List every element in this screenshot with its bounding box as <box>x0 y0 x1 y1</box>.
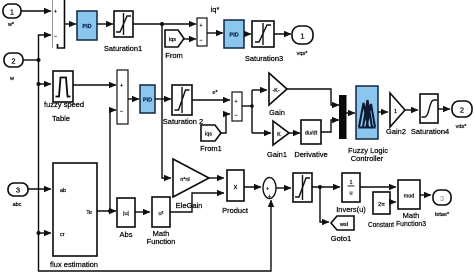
wire Saturation5 to Invers <box>312 186 340 188</box>
svg-text:+: + <box>234 99 237 105</box>
svg-text:Gain: Gain <box>269 108 285 117</box>
wire trunk w down and feedback along bottom to sum circle <box>39 60 272 271</box>
svg-text:3: 3 <box>440 194 444 203</box>
wire Gain to Mux <box>287 89 339 105</box>
wire mod to outport 3 <box>420 194 431 196</box>
saturation Saturation5 <box>293 173 312 202</box>
wire Sum1 to PID1 <box>65 23 76 25</box>
sum Sum4 <box>232 92 242 121</box>
svg-text:Constant: Constant <box>368 220 395 229</box>
wire Product to sum circle <box>244 186 261 188</box>
wire Te branch up to Sum3 minus <box>110 110 116 211</box>
svg-text:2: 2 <box>11 57 15 66</box>
wire Saturation 2 to Sum4 <box>192 99 230 101</box>
svg-text:Goto1: Goto1 <box>331 234 351 243</box>
wire Abs to Math Function <box>135 211 150 213</box>
svg-text:1: 1 <box>10 8 14 17</box>
svg-text:+: + <box>266 187 269 193</box>
wire From to Sum2 <box>184 38 196 40</box>
svg-text:x: x <box>234 184 238 191</box>
svg-text:1: 1 <box>300 32 304 41</box>
svg-text:iqs: iqs <box>169 37 176 43</box>
svg-text:From: From <box>165 51 183 60</box>
junction Sum4 branch <box>250 104 254 108</box>
gain Gain <box>269 73 287 117</box>
svg-text:1: 1 <box>394 109 397 115</box>
wire inport3 to flux estimation <box>28 188 51 190</box>
constant 2pi <box>368 192 395 229</box>
svg-text:Invers(u): Invers(u) <box>336 205 366 214</box>
svg-text:Gain2: Gain2 <box>386 127 406 136</box>
gain EleGain <box>173 159 209 210</box>
junction wsl <box>318 185 322 189</box>
svg-text:−: − <box>120 109 123 115</box>
svg-text:vds*: vds* <box>456 124 468 130</box>
svg-text:|u|: |u| <box>123 211 129 217</box>
wire w to flux estimation wr input <box>39 232 52 234</box>
svg-text:abc: abc <box>13 202 22 208</box>
outport 3 tetae* <box>433 190 451 218</box>
svg-text:Saturation4: Saturation4 <box>411 127 449 136</box>
svg-text:PID: PID <box>82 24 91 30</box>
wire Sum3 to PID3 <box>128 98 139 100</box>
wire branch to Gain1 <box>252 132 271 134</box>
svg-text:fuzzy speed: fuzzy speed <box>44 100 84 109</box>
svg-text:PID: PID <box>229 33 238 39</box>
wire w to fuzzy speed table <box>39 83 52 85</box>
wire Math Function to Product <box>170 193 224 212</box>
svg-text:wsl: wsl <box>339 222 348 228</box>
svg-text:+: + <box>120 83 123 89</box>
svg-text:w*: w* <box>7 22 15 28</box>
svg-text:+: + <box>54 9 57 15</box>
wire Sum2 to PID2 <box>207 32 223 34</box>
product Product <box>222 170 249 215</box>
wire Sum4 output branch <box>242 105 252 107</box>
wire Gain2 to Saturation4 <box>405 109 418 111</box>
abs block Abs <box>117 198 135 239</box>
derivative du/dt <box>294 120 327 159</box>
svg-text:Controller: Controller <box>351 154 384 163</box>
svg-text:From1: From1 <box>200 144 222 153</box>
mux Mux <box>339 95 347 139</box>
svg-text:PID: PID <box>143 98 152 104</box>
wire Mux to Fuzzy Logic Controller <box>346 112 355 114</box>
svg-text:K: K <box>277 132 281 138</box>
sum Sum2 <box>197 18 207 46</box>
outport 2 vds* <box>452 101 472 130</box>
math block Invers(u) <box>336 173 366 214</box>
svg-text:iqs: iqs <box>205 132 212 138</box>
inport 2 w <box>4 53 23 82</box>
svg-text:u: u <box>349 191 352 197</box>
svg-text:Product: Product <box>222 206 249 215</box>
svg-text:EleGain: EleGain <box>176 201 203 210</box>
svg-text:2π: 2π <box>378 202 385 208</box>
svg-text:+: + <box>199 23 202 29</box>
svg-text:Saturation1: Saturation1 <box>104 44 142 53</box>
wire Saturation4 to outport 2 <box>438 108 450 110</box>
saturation Saturation4 <box>411 94 449 136</box>
gain Gain2 <box>386 93 406 136</box>
math function mod <box>396 180 426 228</box>
wire Constant to mod <box>390 201 396 203</box>
from tag From (iqs) <box>165 30 184 60</box>
saturation Saturation 2 <box>163 85 203 126</box>
wire branch to Goto1 <box>320 187 329 222</box>
junction w at top <box>37 58 41 62</box>
svg-text:1: 1 <box>349 180 352 186</box>
wire Gain1 to Derivative <box>289 132 300 134</box>
svg-text:-K-: -K- <box>272 88 280 94</box>
svg-text:e*: e* <box>212 90 218 96</box>
svg-text:+: + <box>268 194 271 200</box>
svg-text:w: w <box>9 76 14 82</box>
math function u^2 <box>147 197 176 246</box>
wire sum circle to Saturation5 <box>276 187 291 189</box>
svg-text:flux estimation: flux estimation <box>50 260 98 269</box>
wire FLC to Gain2 <box>378 111 388 113</box>
svg-text:mod: mod <box>404 194 415 200</box>
svg-text:u²: u² <box>159 211 164 217</box>
from tag From1 (iqs) <box>200 125 222 153</box>
wire Derivative to Mux <box>321 120 339 132</box>
lookup table fuzzy speed Table <box>44 71 84 123</box>
junction w to speed table <box>37 82 41 86</box>
svg-text:ab: ab <box>60 188 66 194</box>
svg-text:n*nl: n*nl <box>180 177 189 183</box>
wire inport2 to trunk <box>23 59 39 61</box>
inport 3 abc <box>8 183 28 208</box>
wire Te output <box>97 210 116 212</box>
svg-text:du/dt: du/dt <box>305 131 318 137</box>
wire EleGain to Product <box>209 177 224 179</box>
PID controller PID3 <box>140 85 155 113</box>
svg-text:vqs*: vqs* <box>297 51 309 57</box>
outport 1 vqs* <box>292 26 313 57</box>
svg-text:2: 2 <box>460 106 464 115</box>
inport 1 w* <box>3 4 21 28</box>
saturation Saturation3 <box>245 21 283 63</box>
subsystem flux estimation <box>50 163 98 269</box>
wire branch down to EleGain <box>162 24 171 178</box>
junction w to flux estimation <box>37 231 41 235</box>
svg-text:iq*: iq* <box>211 5 220 14</box>
svg-text:Function: Function <box>147 237 176 246</box>
svg-text:Function3: Function3 <box>396 219 426 228</box>
wire inport1 to Sum1 <box>21 10 51 12</box>
gain Gain1 <box>267 121 289 159</box>
wire PID2 to Saturation3 <box>244 33 251 35</box>
svg-text:Saturation 2: Saturation 2 <box>163 117 203 126</box>
svg-text:Table: Table <box>52 114 70 123</box>
svg-text:cr: cr <box>60 232 65 238</box>
svg-text:Gain1: Gain1 <box>267 150 287 159</box>
wire PID1 to Saturation1 <box>97 23 113 25</box>
svg-text:Abs: Abs <box>120 230 133 239</box>
wire Saturation3 to outport 1 <box>274 33 291 35</box>
wire Invers to mod <box>360 186 396 188</box>
svg-text:Saturation3: Saturation3 <box>245 54 283 63</box>
wire table to Sum3 <box>73 84 116 86</box>
wire PID3 to Saturation 2 <box>155 98 171 100</box>
wire branch vertical <box>251 90 253 133</box>
svg-text:−: − <box>54 34 57 40</box>
wire Saturation1 to Sum2 <box>133 23 196 25</box>
svg-text:Derivative: Derivative <box>294 150 327 159</box>
wire branch to Gain <box>252 89 267 91</box>
PID controller PID1 <box>77 11 97 40</box>
saturation Saturation1 <box>104 11 142 53</box>
wire trunk up to Sum1 minus <box>39 35 52 60</box>
sum circle <box>263 178 276 201</box>
svg-text:−: − <box>234 113 237 119</box>
svg-text:−: − <box>199 38 202 44</box>
PID controller PID2 <box>224 20 244 48</box>
svg-text:tetae*: tetae* <box>435 212 450 218</box>
junction Te <box>108 209 112 213</box>
goto tag Goto1 (wsl) <box>331 216 354 243</box>
wire From1 to Sum4 minus <box>221 114 230 133</box>
fuzzy logic controller U1 <box>348 86 388 163</box>
svg-text:Te: Te <box>86 210 92 216</box>
sum Sum1 <box>53 0 65 48</box>
svg-text:3: 3 <box>16 186 20 195</box>
sum Sum3 <box>117 70 128 124</box>
junction on iq* line <box>160 22 164 26</box>
